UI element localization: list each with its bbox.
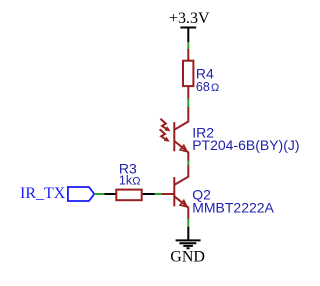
transistor Q2 collector pin (174, 165, 188, 185)
resistor R3 pin 2 (143, 193, 155, 195)
svg-text:IR_TX: IR_TX (20, 185, 66, 202)
wire from R4 to IR2 collector (187, 99, 189, 108)
wire from port to R3 (95, 193, 106, 195)
svg-text:MMBT2222A: MMBT2222A (192, 199, 274, 215)
resistor R3 body (116, 190, 141, 201)
phototransistor IR2 collector pin (174, 107, 188, 130)
svg-text:GND: GND (170, 249, 205, 266)
transistor Q2 base bar (173, 177, 175, 206)
wire from R3 to Q2 base (155, 193, 163, 195)
phototransistor IR2 base bar (173, 122, 175, 151)
wire from Q2 emitter to GND (187, 219, 189, 228)
svg-text:PT204-6B(BY)(J): PT204-6B(BY)(J) (192, 137, 299, 153)
resistor R4 pin 1 (187, 49, 189, 60)
resistor R4 body (183, 61, 193, 86)
svg-text:68Ω: 68Ω (196, 80, 219, 94)
resistor R4 pin 2 (187, 87, 189, 99)
transistor Q2 base pin (162, 193, 175, 195)
phototransistor IR2 light arrow 1 (160, 119, 167, 130)
power port +3.3V bar symbol (180, 28, 196, 43)
wire from +3.3V to R4 (187, 42, 189, 50)
phototransistor IR2 light arrow 2 (160, 129, 167, 140)
resistor R3 pin 1 (105, 193, 117, 195)
svg-text:1kΩ: 1kΩ (119, 174, 141, 188)
port IR_TX symbol (68, 187, 94, 201)
ground symbol (176, 227, 201, 248)
transistor Q2 emitter pin with arrow (180, 200, 187, 206)
phototransistor IR2 emitter pin with arrow (180, 145, 187, 151)
wire from IR2 emitter to Q2 collector (187, 161, 189, 166)
svg-text:+3.3V: +3.3V (169, 10, 210, 27)
